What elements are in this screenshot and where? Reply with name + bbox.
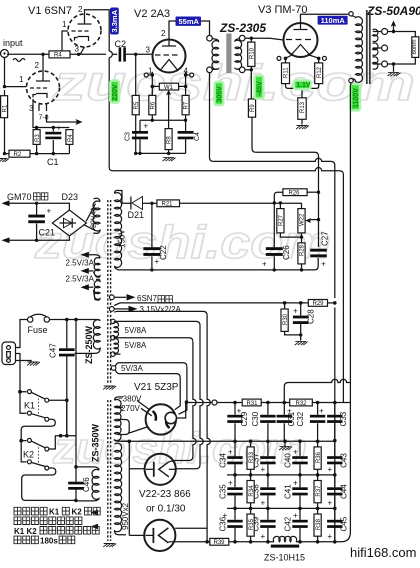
svg-text:+: +: [237, 407, 242, 416]
node R4 left: [41, 53, 44, 56]
terminal 5V8A-1 top: [111, 319, 115, 323]
svg-text:5V/8A: 5V/8A: [125, 326, 147, 335]
OPT tap terminal top: [382, 29, 388, 35]
svg-text:+: +: [261, 532, 266, 541]
node C1 top: [52, 126, 55, 129]
V1a plate bar: [78, 14, 92, 24]
wire R8 bottom: [168, 150, 170, 154]
resistor R9: [248, 99, 255, 117]
capacitor C44: [334, 475, 336, 509]
svg-text:C28: C28: [307, 309, 316, 324]
V2 filament: [161, 60, 178, 71]
resistor R2: [9, 150, 30, 157]
tube V1b triode (lower half 6SN7): [27, 71, 60, 104]
svg-text:+: +: [262, 260, 267, 269]
svg-text:C41: C41: [284, 484, 293, 499]
node V2 grid: [134, 53, 137, 56]
capacitor C35: [234, 475, 236, 509]
wire wiper down: [168, 97, 170, 129]
wire bias bottom bus: [122, 258, 319, 270]
resistor R38: [317, 508, 319, 541]
relay K1 contact 1: [20, 392, 45, 399]
grid stopper resistor R4: [7, 53, 49, 55]
node junction x60: [59, 434, 63, 438]
node rail row2: [333, 473, 337, 477]
node ZS-350W tap to rail1: [128, 440, 132, 444]
wire heater vertical B: [176, 325, 203, 468]
resistor R34: [250, 475, 252, 509]
node junction x66: [65, 434, 69, 438]
node row1 x235: [233, 440, 237, 444]
fuse F1: [28, 317, 33, 322]
voltage label -45V: [255, 76, 264, 99]
svg-text:1: 1: [62, 20, 67, 29]
arrow 6SN7 heater: [127, 294, 136, 300]
svg-text:R8: R8: [167, 136, 173, 144]
svg-text:C22: C22: [159, 245, 168, 260]
OPT primary winding: [352, 16, 363, 83]
capacitor C3: [139, 120, 141, 153]
resistor R7: [182, 95, 189, 114]
transformer ZS-2305 core: [226, 34, 231, 74]
node bus R8: [167, 152, 170, 155]
V2 grid dashes: [155, 54, 178, 56]
node V1a cathode: [77, 53, 80, 56]
svg-text:R1: R1: [3, 104, 9, 112]
wire heater to arrow: [47, 115, 71, 122]
heater arrow: [70, 121, 78, 123]
svg-text:+: +: [293, 511, 298, 520]
node row3 x250.6: [249, 507, 253, 511]
svg-text:V22-23 866: V22-23 866: [139, 489, 191, 500]
resistor R27: [279, 203, 281, 209]
riser bump over signal wire: [109, 51, 112, 57]
svg-text:C40: C40: [284, 453, 293, 468]
terminal 6.3V top: [109, 295, 114, 300]
svg-text:K1: K1: [49, 508, 60, 517]
input shield symbol: [13, 59, 25, 62]
wire V1a grid to V1b plate node: [62, 31, 68, 51]
wire fuse to ZS-250W primary: [50, 320, 101, 321]
svg-text:R5: R5: [134, 101, 140, 109]
svg-text:R2: R2: [14, 152, 22, 158]
svg-text:R12: R12: [317, 66, 323, 78]
node row1 x300: [298, 440, 302, 444]
capacitor C36: [234, 508, 236, 541]
OPT primary terminal top: [349, 12, 353, 16]
transformer ZS-350W core: [108, 400, 111, 541]
filament terminal V3 left: [277, 56, 281, 60]
svg-text:ZS-50A90: ZS-50A90: [366, 4, 420, 18]
transformer ZS-2305 primary terminal top: [207, 35, 213, 41]
wire link row0 to 1100V riser: [284, 379, 350, 402]
svg-text:+: +: [293, 448, 298, 457]
node K1 throw1: [65, 398, 69, 402]
node V21 output: [185, 400, 189, 404]
current label 3.3mA: [110, 8, 119, 35]
wire B+ bus bottom: [175, 541, 341, 543]
note chinese line2: [14, 517, 82, 525]
transformer ZS-350W primary: [76, 469, 99, 501]
wire rectified rail row0: [187, 402, 351, 404]
wire 5V8A-2 lower lead: [114, 353, 121, 354]
capacitor C1 (electrolytic): [52, 128, 54, 154]
resistor R21: [157, 200, 180, 207]
resistor R10: [250, 38, 252, 70]
transformer ZS-2305 secondary winding: [235, 39, 242, 70]
node R26 right: [317, 191, 320, 194]
cathode bus wire: [5, 153, 70, 155]
node C26 bottom: [273, 268, 276, 271]
capacitor C4: [185, 120, 187, 153]
transformer ZS-250W winding 2.5V-2: [94, 279, 101, 300]
tube V2 2A3: [153, 40, 186, 73]
node bus x250.6: [249, 540, 253, 544]
transformer ZS-350W HV winding 380V: [115, 397, 130, 441]
node row2 x300: [298, 473, 302, 477]
arrow output phase: [393, 25, 395, 32]
node row3 x317.6: [316, 507, 320, 511]
ground ZS-250W core: [103, 386, 116, 390]
wire neutral to K1: [16, 354, 21, 392]
wire R1 leads: [4, 90, 6, 154]
wire heater center tap rail to R29: [114, 303, 308, 306]
node K1 pole: [18, 390, 22, 394]
svg-text:2.5V/3A: 2.5V/3A: [66, 275, 95, 284]
wire 220V line horizontal: [112, 168, 343, 403]
OPT primary terminal bottom: [349, 78, 353, 82]
node speaker minus: [392, 62, 395, 65]
svg-text:110mA: 110mA: [321, 16, 346, 25]
transformer ZS-250W winding 150V: [115, 190, 131, 270]
relay K2 contact 1: [21, 441, 45, 448]
current label 110mA: [318, 16, 348, 25]
resistor R6: [149, 95, 156, 114]
wire K1 throw2 loop down to K2: [21, 419, 55, 440]
resistor R3: [33, 130, 40, 145]
V23 filament bar: [152, 528, 154, 543]
capacitor C41: [299, 475, 301, 509]
node R9 top: [250, 68, 253, 71]
ground V2 stage: [163, 158, 176, 162]
arrow 2.5V tap 1: [81, 252, 89, 258]
wire V21 cathode out: [176, 403, 185, 419]
svg-text:R35: R35: [249, 518, 255, 530]
wire V23 plate to vertical A: [175, 527, 207, 529]
svg-text:ZS-250W: ZS-250W: [84, 325, 94, 364]
ground ZS-350W core: [103, 544, 116, 548]
V2 plate bar: [162, 40, 176, 46]
svg-text:K1: K1: [24, 401, 35, 411]
node row3 x235: [233, 507, 237, 511]
wire R27 W22 bottoms: [280, 233, 301, 243]
svg-text:C26: C26: [282, 245, 291, 260]
node bus R5: [134, 152, 137, 155]
mains tap arrows ZS-350W: [91, 510, 99, 529]
svg-text:6SN7: 6SN7: [137, 294, 158, 303]
wire V1b plate up: [42, 54, 44, 71]
capacitor C40: [299, 441, 301, 475]
svg-text:+: +: [293, 307, 298, 316]
svg-text:ZS-2305: ZS-2305: [219, 21, 266, 35]
resistor R26: [283, 189, 307, 196]
svg-text:3: 3: [75, 45, 80, 54]
node R10 top: [250, 37, 253, 40]
svg-text:R21: R21: [162, 202, 174, 208]
svg-text:3.15Vx2/2A: 3.15Vx2/2A: [140, 305, 182, 314]
wire filament dc top: [9, 203, 70, 210]
capacitor C28: [300, 303, 302, 341]
node row3 x267.9: [266, 507, 270, 511]
svg-text:D21: D21: [128, 210, 145, 220]
svg-text:2.5V/3A: 2.5V/3A: [66, 259, 95, 268]
wire V2 plate to transformer: [169, 21, 210, 40]
svg-text:ZS-350W: ZS-350W: [91, 423, 101, 462]
svg-text:W1: W1: [164, 85, 174, 91]
node C1 bottom: [52, 152, 55, 155]
node filament right: [184, 73, 188, 77]
svg-text:+: +: [328, 465, 333, 474]
svg-text:3.3mA: 3.3mA: [110, 9, 119, 32]
wire live to fuse: [16, 320, 28, 348]
transformer ZS-250W winding 2.5V-1: [94, 258, 101, 278]
svg-text:+: +: [328, 499, 333, 508]
wire R9 bottom to bias line: [252, 117, 256, 152]
ground V3 cathode: [296, 126, 309, 130]
arrow 2.5V tap 3: [81, 284, 89, 290]
tube V21 5Z3P: [146, 404, 176, 434]
node C28 top: [299, 301, 303, 305]
wire rail row1: [121, 440, 335, 442]
resistor R37: [317, 475, 319, 509]
svg-text:C46: C46: [82, 477, 91, 492]
svg-text:C3: C3: [125, 132, 132, 141]
wire R13 to ground: [301, 119, 303, 124]
wire K1K2 junction row: [55, 400, 76, 436]
svg-text:+: +: [319, 407, 324, 416]
wire 1100V feed to OPT primary: [341, 83, 351, 542]
node W22 wiper tap: [317, 218, 320, 221]
wire R26 right: [307, 191, 318, 193]
svg-text:R36: R36: [316, 451, 322, 463]
mains plug: [2, 342, 16, 365]
capacitor C46: [75, 467, 77, 501]
resistor R29: [308, 300, 327, 307]
transformer ZS-350W winding 950Vx2: [115, 443, 127, 535]
tube V1a triode (upper half 6SN7): [68, 14, 101, 47]
wire ZS-2305 primary bottom to B+ line: [210, 73, 214, 162]
node row1 x317.6: [316, 440, 320, 444]
svg-text:C35: C35: [219, 484, 228, 499]
tube V23 866: [144, 520, 175, 551]
wire 5V3A pair to V21 filament: [115, 363, 187, 415]
wire B+ vertical right rail: [334, 308, 336, 542]
V3 plate bar: [294, 23, 308, 29]
capacitor C38: [267, 475, 269, 509]
svg-text:R38: R38: [316, 518, 322, 530]
wire cathode join: [286, 84, 319, 98]
svg-text:W22: W22: [300, 213, 306, 226]
transformer ZS-2305 primary terminal bottom: [207, 67, 213, 73]
svg-text:220V: 220V: [112, 84, 119, 101]
svg-text:+: +: [287, 407, 292, 416]
relay K1 link dashed: [38, 395, 40, 415]
W1 wiper arrow: [168, 93, 170, 97]
svg-text:R32: R32: [296, 401, 308, 407]
relay K2 link dashed: [38, 444, 40, 464]
svg-text:C32: C32: [296, 411, 305, 426]
svg-text:C21: C21: [39, 228, 56, 238]
OPT secondary tap wires: [373, 32, 382, 65]
bridge rectifier D23: [52, 210, 86, 236]
svg-text:R4: R4: [68, 134, 74, 142]
svg-text:input: input: [3, 38, 23, 48]
wire bottom tap to load: [388, 57, 416, 64]
wire to 6SN7 heater arrow: [114, 296, 126, 298]
wire 380V to V21 plate: [137, 401, 150, 411]
wire grid leak drop: [135, 54, 137, 95]
node D21 out: [150, 202, 153, 205]
resistor R32: [290, 399, 313, 406]
svg-text:GM70: GM70: [7, 192, 32, 202]
svg-text:ZS-10H15: ZS-10H15: [264, 553, 305, 563]
svg-text:C1: C1: [47, 157, 59, 167]
capacitor C33: [334, 403, 336, 441]
resistor R36: [317, 441, 319, 475]
node row2 x317.6: [316, 473, 320, 477]
svg-text:8ohm: 8ohm: [412, 39, 418, 54]
V3 grid dashes: [286, 39, 311, 41]
node C21 bottom: [35, 239, 38, 242]
wire top tap to load: [388, 32, 416, 37]
choke ZS-10H15: [273, 536, 296, 541]
wire bridge ac to winding: [84, 204, 96, 231]
svg-text:V1 6SN7: V1 6SN7: [28, 5, 72, 17]
svg-text:K2: K2: [72, 508, 83, 517]
transformer ZS-2305 secondary terminal bottom: [239, 67, 245, 73]
svg-text:R9: R9: [250, 104, 256, 112]
transformer ZS-250W winding 20V4A: [93, 198, 100, 233]
svg-text:7-8: 7-8: [39, 115, 49, 122]
V1b cathode hook: [33, 94, 47, 99]
svg-text:+: +: [328, 532, 333, 541]
resistor R11: [285, 58, 287, 63]
hum pot W1: [159, 83, 178, 90]
voltage label 1.1V: [294, 80, 311, 89]
terminal V21 output: [212, 400, 217, 405]
node vertical A at bus: [205, 540, 209, 544]
node bus x317.6: [316, 540, 320, 544]
svg-text:+: +: [293, 479, 298, 488]
pot W22: [301, 203, 303, 209]
capacitor C39: [267, 508, 269, 541]
svg-text:~270V: ~270V: [117, 404, 141, 413]
svg-text:C47: C47: [49, 343, 58, 358]
transformer ZS-250W core: [108, 200, 111, 384]
node bus C3: [138, 152, 141, 155]
V21 anode arcs: [153, 411, 170, 428]
resistor R12: [318, 58, 320, 63]
OPT tap terminal bottom: [382, 61, 388, 67]
capacitor C21: [36, 203, 38, 240]
wire bias line -45V horizontal: [256, 152, 319, 192]
svg-text:hifi168.com: hifi168.com: [350, 545, 416, 560]
svg-text:+: +: [228, 448, 233, 457]
svg-text:C33: C33: [339, 411, 348, 426]
wire 270V to V21 plate2: [141, 408, 152, 416]
resistor R8: [165, 129, 172, 150]
wire R5 bottom to bus: [135, 115, 137, 154]
wire R28 bottom: [301, 264, 303, 270]
capacitor C22: [151, 203, 153, 270]
relay K2 contact 2: [21, 441, 45, 467]
node K2 pole: [19, 439, 23, 443]
transformer ZS-2305 primary winding: [212, 39, 219, 70]
svg-text:R30: R30: [283, 313, 289, 325]
capacitor C27: [310, 249, 327, 252]
transformer winding 5V8A first: [114, 322, 118, 337]
V1b heater leads pins 7-8: [39, 104, 47, 112]
wire R10 bottom to R9 top: [250, 70, 252, 99]
OPT tap terminal middle: [382, 45, 388, 51]
node grid V1b: [3, 85, 6, 88]
resistor R30: [284, 303, 286, 309]
node W1 right: [184, 85, 188, 89]
node row2 x235: [233, 473, 237, 477]
OPT core: [367, 10, 370, 84]
svg-text:R3: R3: [35, 134, 41, 142]
svg-text:R39: R39: [214, 540, 226, 546]
ground filter mid: [284, 441, 286, 446]
svg-text:V2 2A3: V2 2A3: [134, 8, 170, 20]
node rail row1: [333, 439, 337, 443]
arrow 3.15V: [129, 306, 138, 312]
capacitor C26: [273, 203, 275, 270]
wire 5V8A-1 pair: [114, 321, 200, 341]
node filament left: [151, 73, 155, 77]
node speaker plus: [392, 30, 395, 33]
capacitor C34: [234, 441, 236, 475]
svg-text:+: +: [57, 124, 62, 133]
resistor Rk (right of C1): [66, 130, 73, 145]
node bus x235: [233, 540, 237, 544]
terminal 5V8A-1 bottom: [111, 336, 115, 340]
wire secondary bottom to R9: [245, 69, 251, 71]
node row2 x250.6: [249, 473, 253, 477]
svg-text:1100V: 1100V: [353, 88, 360, 108]
node row0 x235: [233, 401, 237, 405]
ground at input stage: [0, 159, 9, 163]
svg-text:2: 2: [78, 5, 83, 14]
svg-text:950Vx2: 950Vx2: [121, 502, 130, 530]
capacitor C30: [267, 403, 269, 441]
tube V22 866: [145, 454, 176, 485]
svg-text:R13: R13: [300, 101, 306, 113]
node C46 top: [74, 465, 78, 469]
node row1 x250.6: [249, 440, 253, 444]
node R2 right: [35, 152, 38, 155]
terminal 6.3V bottom: [109, 307, 114, 312]
wire tap to ground: [393, 64, 395, 72]
svg-text:+: +: [228, 479, 233, 488]
note chinese line1: [14, 507, 100, 515]
terminal 5V8A-2 bottom: [111, 352, 115, 356]
wire B+ 305V line horizontal: [213, 158, 334, 298]
node rail row3: [333, 507, 337, 511]
node C47 tap: [65, 318, 69, 322]
arrow GM70 filament +: [2, 200, 10, 206]
terminal 5V3A: [111, 366, 116, 371]
